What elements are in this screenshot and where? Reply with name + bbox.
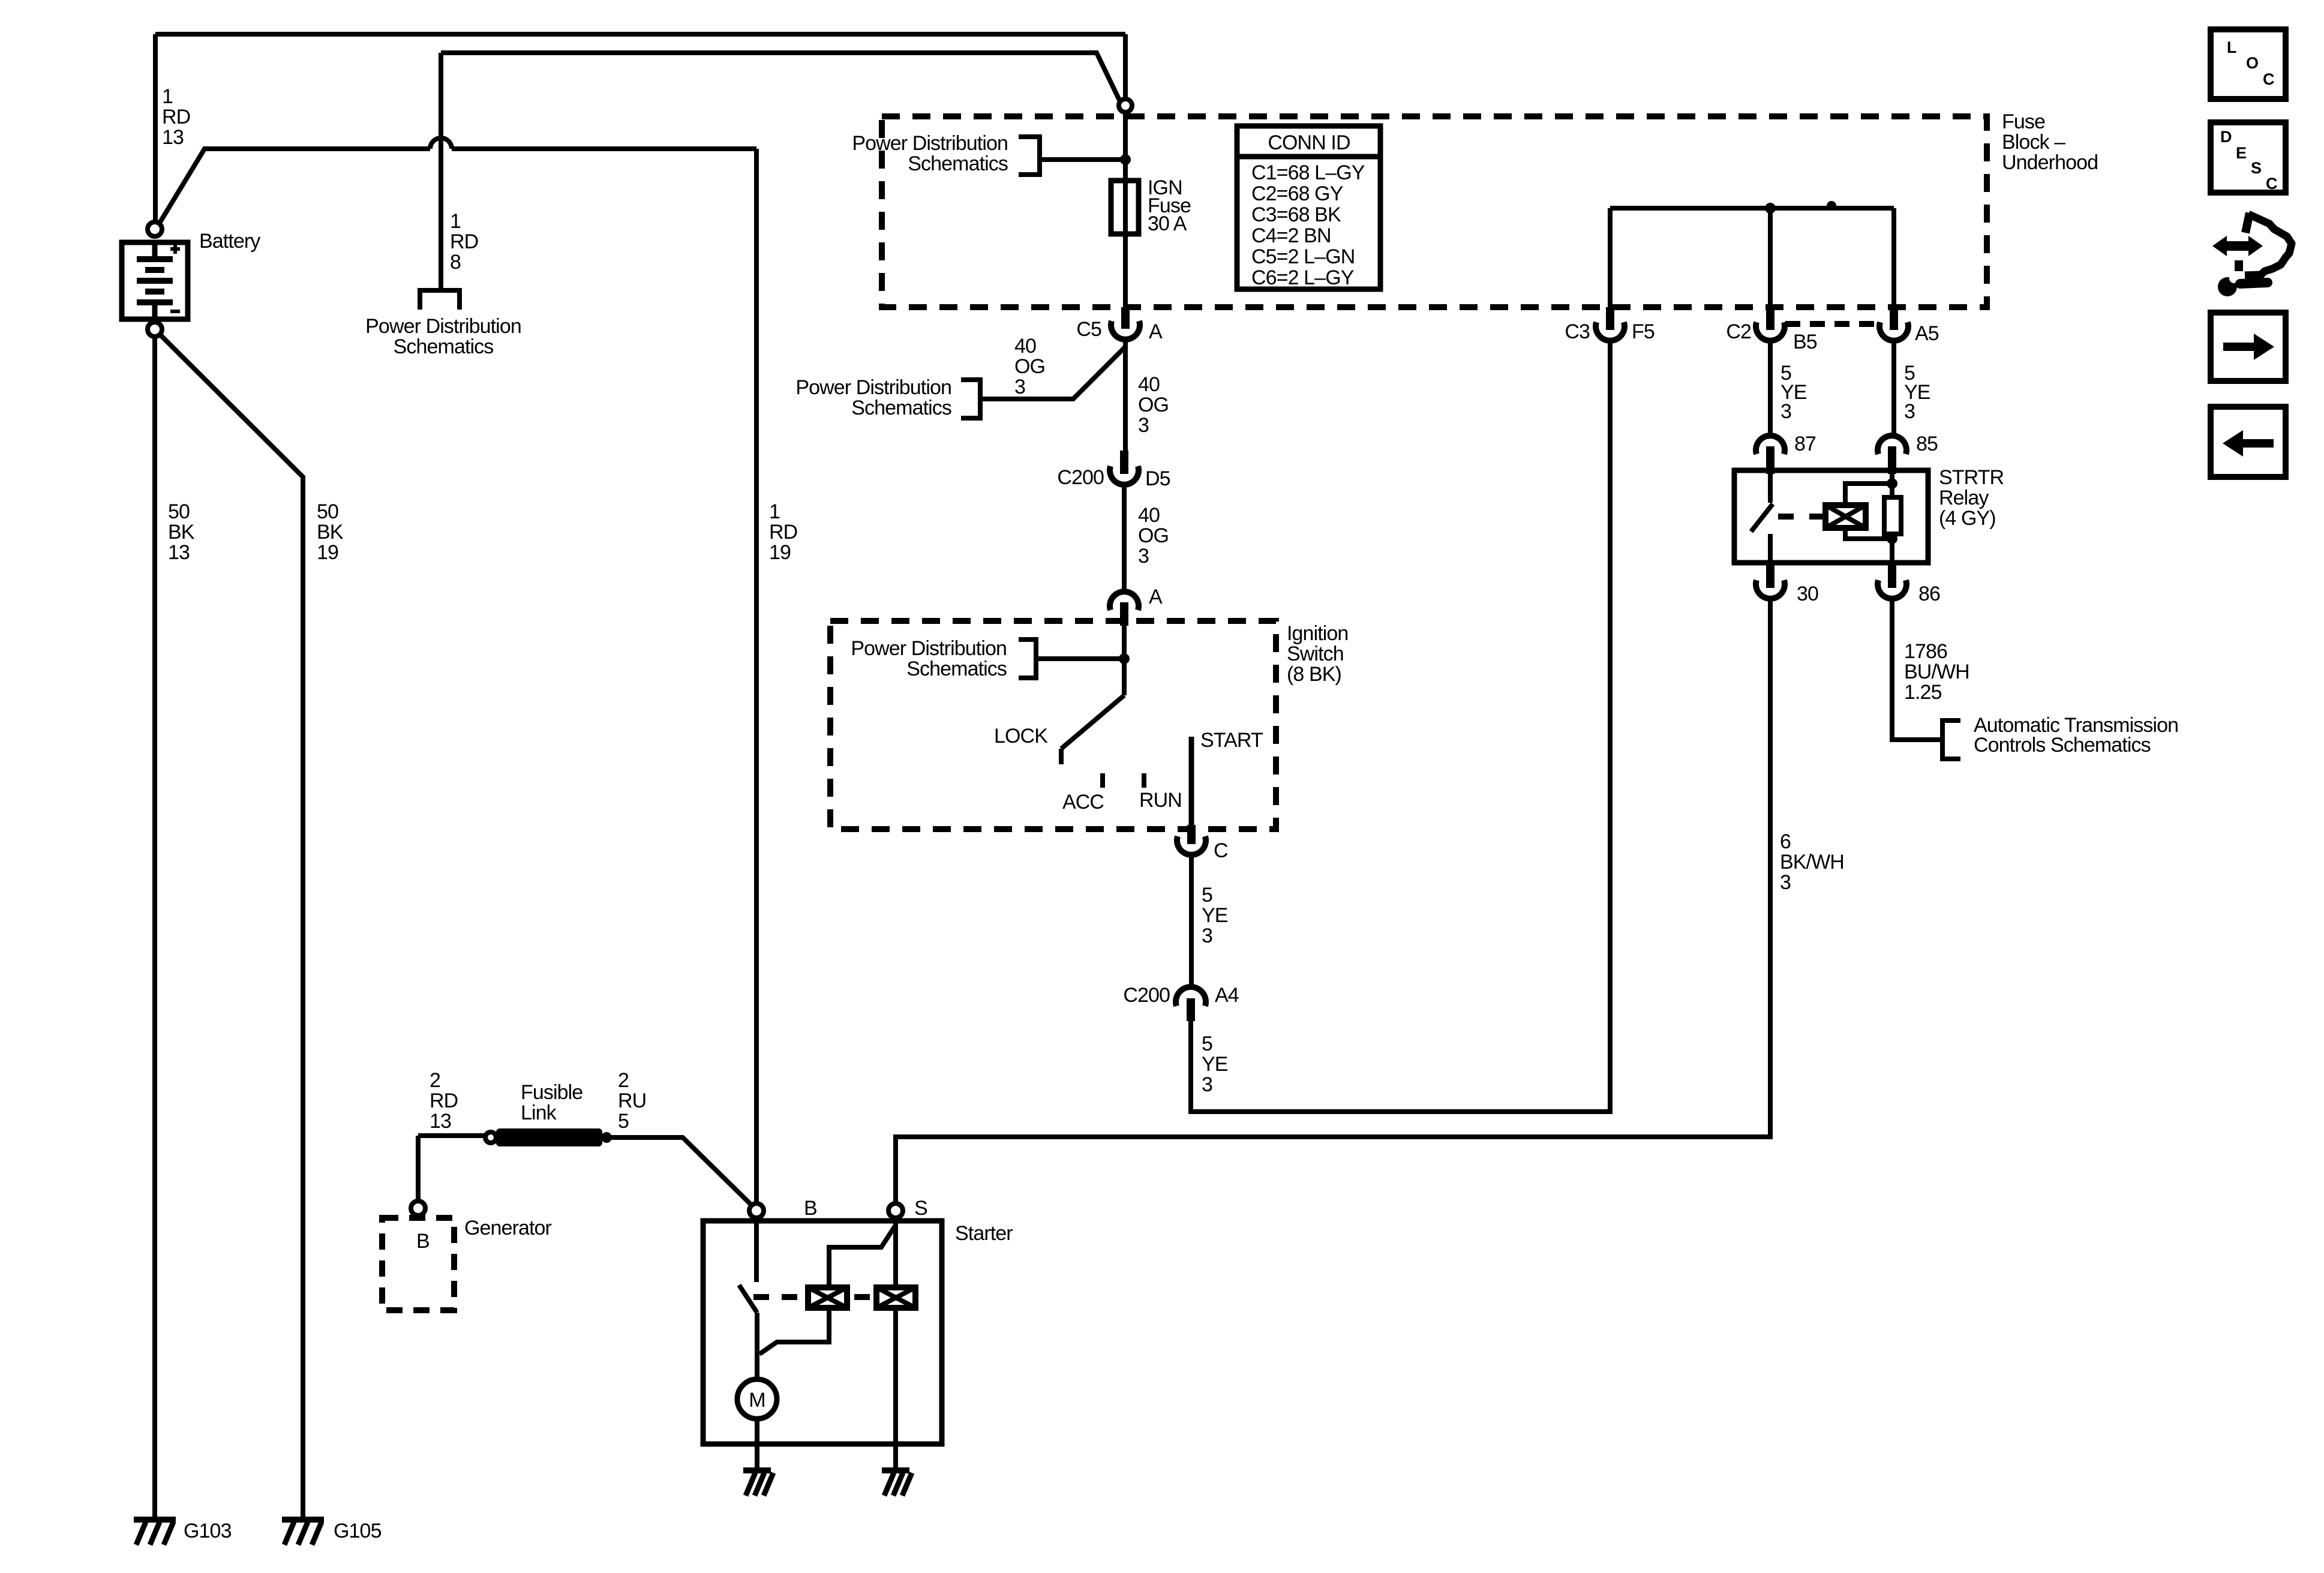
CONN ID table [1237,126,1380,289]
off-page symbol power distribution (1 RD 8) [420,290,460,310]
ground G103 [134,1520,176,1545]
svg-text:13: 13 [162,126,184,149]
bracket power distribution (ignition) [1019,640,1036,678]
svg-text:8: 8 [450,251,461,274]
svg-text:(4 GY): (4 GY) [1939,507,1996,530]
starter hold-in coil [876,1287,915,1308]
node: splice at fuse block top [1119,99,1132,112]
svg-text:30: 30 [1797,583,1818,605]
ground starter motor [743,1470,773,1496]
svg-text:3: 3 [1202,924,1212,947]
svg-text:Ignition: Ignition [1287,622,1348,645]
svg-text:G103: G103 [184,1520,232,1542]
svg-text:C: C [1214,839,1228,862]
relay resistor [1890,474,1894,563]
svg-text:C: C [2263,70,2275,88]
connector C200 pin A4 [1176,987,1206,1006]
connector relay pin 86 [1888,563,1896,588]
fuse IGN 30A [1123,181,1128,307]
svg-text:B: B [804,1197,817,1220]
svg-text:BK: BK [168,521,195,544]
svg-text:B: B [416,1230,430,1253]
svg-text:Block –: Block – [2002,131,2065,154]
ignition RUN contact [1142,773,1146,788]
svg-text:C6=2 L–GY: C6=2 L–GY [1251,266,1354,289]
svg-text:3: 3 [1780,400,1791,423]
connector relay pin 30 [1766,563,1774,588]
wire 5 YE 3 (A5 to relay 85) [1891,341,1896,436]
starter solenoid actuator dashed [753,1294,870,1300]
wire 40 OG 3 (C200 to ignition switch) [1122,485,1127,592]
svg-text:O: O [2246,54,2259,72]
svg-text:Power Distribution: Power Distribution [852,132,1008,155]
connector relay pin 85 [1878,436,1906,454]
svg-text:3: 3 [1780,871,1791,894]
wire battery positive to fuse block (top feed) [155,32,1125,37]
generator B wire [416,1136,421,1201]
ignition switch LOCK contact [1061,695,1124,764]
starter pull-in coil [808,1287,847,1308]
svg-text:Schematics: Schematics [908,152,1008,175]
svg-text:19: 19 [317,541,338,564]
svg-text:START: START [1200,729,1263,752]
svg-text:Fuse: Fuse [2002,110,2045,133]
svg-text:A: A [1149,586,1163,608]
svg-text:Starter: Starter [955,1222,1013,1245]
wire 1786 BU/WH 1.25 (relay 86) [1892,599,1942,740]
connector A (ignition switch input) [1110,592,1139,610]
svg-text:CONN ID: CONN ID [1268,131,1350,154]
svg-text:BK: BK [317,521,344,544]
starter motor ground wire [755,1419,759,1469]
bracket power distribution (fuse block) [1019,137,1040,175]
svg-text:OG: OG [1014,355,1045,378]
icon arrow back [2211,407,2286,477]
svg-text:86: 86 [1918,583,1940,605]
svg-text:40: 40 [1014,335,1036,358]
ignition START contact wire [1189,737,1194,825]
svg-text:A: A [1149,320,1163,343]
battery negative terminal [148,322,162,337]
svg-text:Schematics: Schematics [906,658,1007,680]
svg-text:1: 1 [450,210,461,233]
svg-text:6: 6 [1780,830,1791,853]
wire 40 OG 3 (C5 to C200) [1123,340,1128,451]
svg-text:40: 40 [1138,504,1160,527]
svg-text:C2=68 GY: C2=68 GY [1251,182,1343,205]
svg-text:D5: D5 [1145,467,1170,490]
svg-text:30 A: 30 A [1148,212,1187,235]
battery B+ terminal [148,222,162,236]
svg-text:Underhood: Underhood [2002,151,2098,174]
svg-text:D: D [2220,128,2232,146]
starter box [703,1221,942,1444]
svg-text:3: 3 [1138,545,1149,568]
bracket power distribution (below C5) [961,380,980,418]
svg-text:RD: RD [162,106,190,128]
wire 6 BK/WH 3 (relay 30 to starter S) [896,599,1770,1203]
junction half-dot on bus [1827,201,1836,206]
svg-text:3: 3 [1202,1073,1212,1096]
svg-text:OG: OG [1138,394,1169,416]
wire 1 RD 13 from battery to starter feed [158,149,430,225]
generator feed wire 2 RD 13 [418,1133,486,1138]
fuse block - underhood dashed box [882,116,1987,307]
relay coil wiring [1845,484,1892,539]
svg-text:5: 5 [1202,1032,1212,1055]
icon DESC [2211,122,2286,193]
connector relay pin 87 [1756,436,1785,454]
svg-text:19: 19 [769,541,791,564]
wire tap to power distribution (inside fuse block) [1040,157,1125,162]
svg-text:YE: YE [1202,1053,1228,1076]
svg-text:1.25: 1.25 [1904,681,1942,704]
svg-text:C3: C3 [1565,320,1590,343]
svg-text:Relay: Relay [1939,487,1989,509]
svg-text:RD: RD [450,230,478,253]
fuse block internal bus [1610,206,1894,211]
wire 5 YE 3 (B5 to relay 87) [1768,341,1773,436]
svg-text:STRTR: STRTR [1939,466,2004,489]
connector C200 pin D5 [1120,451,1128,474]
junction dot ignition [1119,653,1130,664]
wire 1 RD 8 vertical [439,53,443,290]
relay switch [1751,474,1773,563]
wire 2 RU 5 to starter B [611,1137,751,1205]
starter motor [737,1379,777,1419]
wire 1 RD 8 feed from top [441,53,1120,101]
generator B terminal [411,1201,425,1215]
ignition ACC contact [1100,773,1105,788]
svg-text:1786: 1786 [1904,640,1947,663]
icon vehicle service (arrow + car + wrench) [2212,213,2292,296]
svg-text:13: 13 [430,1110,451,1133]
svg-text:87: 87 [1794,433,1816,455]
starter S terminal [888,1203,903,1218]
svg-text:50: 50 [317,500,338,523]
relay actuator dashed [1778,514,1825,520]
wire ignition feed [1122,626,1127,695]
connector C2 pin B5 [1766,307,1774,330]
battery [122,242,188,319]
wire 5 YE 3 to fuse block F5 [1191,341,1610,1112]
svg-text:Power Distribution: Power Distribution [851,637,1007,660]
svg-text:M: M [749,1389,765,1412]
svg-text:5: 5 [618,1110,629,1133]
svg-text:C: C [2266,175,2278,193]
svg-text:C200: C200 [1057,466,1104,489]
svg-text:S: S [914,1197,927,1220]
connector C5 pin A [1121,307,1130,329]
icon LOC [2211,29,2286,99]
svg-text:3: 3 [1014,376,1025,398]
svg-text:C4=2 BN: C4=2 BN [1251,224,1331,247]
svg-text:F5: F5 [1632,320,1655,343]
ground starter solenoid [882,1470,912,1496]
wire battery positive drop to battery [153,34,158,221]
svg-text:Controls Schematics: Controls Schematics [1974,734,2151,757]
wire 5 YE 3 (C to C200 A4) [1189,855,1194,987]
svg-text:A5: A5 [1915,322,1939,345]
wire 1 RD 13 horizontal to 1 RD 19 drop [452,146,756,151]
relay coil [1825,505,1866,528]
svg-text:Power Distribution: Power Distribution [795,376,951,399]
svg-text:C5: C5 [1076,318,1101,341]
wire 1 RD 19 vertical to starter B [754,149,759,1202]
svg-text:5: 5 [1202,884,1212,906]
svg-text:A4: A4 [1215,984,1239,1007]
svg-text:Switch: Switch [1287,643,1344,665]
svg-text:Battery: Battery [199,230,260,253]
generator dashed box [382,1218,454,1310]
wire tap to power distribution (ignition) [1036,656,1124,661]
junction dot bus/C2 [1765,203,1776,214]
svg-text:1: 1 [162,85,173,108]
icon arrow forward [2211,313,2286,381]
wire node to IGN fuse [1123,113,1128,181]
svg-text:LOCK: LOCK [994,725,1048,748]
wire 50 BK 13 battery to G103 [152,337,157,1518]
connector C (START output) [1187,825,1196,844]
junction dots relay [1887,478,1897,489]
dashed connector link C2-A5 [1785,321,1878,327]
connector A5 [1890,307,1898,330]
STRTR relay box [1734,470,1928,563]
starter S internal wiring [829,1218,896,1287]
svg-text:Generator: Generator [464,1217,552,1239]
starter B terminal [749,1203,764,1218]
svg-text:YE: YE [1202,904,1228,927]
svg-text:Link: Link [521,1101,557,1124]
svg-text:S: S [2251,159,2262,177]
svg-text:40: 40 [1138,373,1160,396]
svg-text:G105: G105 [334,1520,382,1542]
svg-text:ACC: ACC [1062,791,1104,813]
svg-text:(8 BK): (8 BK) [1287,663,1341,686]
svg-text:3: 3 [1138,414,1149,437]
starter hold-in coil ground path [893,1308,898,1469]
svg-text:RUN: RUN [1139,789,1182,812]
junction dot fuse input [1120,154,1131,165]
ground G105 [282,1520,324,1545]
ignition switch dashed box [830,621,1276,829]
svg-text:2: 2 [618,1069,629,1092]
svg-text:3: 3 [1904,400,1915,423]
svg-text:Schematics: Schematics [394,335,494,358]
svg-text:C1=68 L–GY: C1=68 L–GY [1251,161,1365,184]
svg-text:RD: RD [769,521,797,544]
starter solenoid switch [739,1218,757,1380]
svg-text:E: E [2236,144,2247,162]
svg-text:C2: C2 [1726,320,1751,343]
svg-text:OG: OG [1138,524,1169,547]
svg-text:Fusible: Fusible [521,1081,582,1104]
svg-text:C5=2 L–GN: C5=2 L–GN [1251,245,1355,268]
svg-text:BK/WH: BK/WH [1780,851,1844,873]
svg-text:RU: RU [618,1089,646,1112]
fusible link [485,1128,612,1146]
svg-text:C3=68 BK: C3=68 BK [1251,203,1341,226]
svg-text:85: 85 [1916,433,1938,455]
svg-text:2: 2 [430,1069,440,1092]
svg-text:L: L [2227,38,2237,56]
connector C3 pin F5 [1606,307,1614,330]
svg-text:B5: B5 [1793,331,1817,353]
starter coil return wiring [759,1308,829,1354]
bracket automatic transmission [1942,721,1960,759]
svg-text:Power Distribution: Power Distribution [365,315,521,338]
wire 50 BK 19 battery to G105 [158,333,303,1518]
svg-text:Schematics: Schematics [851,397,951,419]
wire tap to power distribution (below C5) [980,347,1125,399]
wire hop over 1 RD 8 [430,138,452,149]
wire top feed drop to fuse block node [1123,34,1128,100]
svg-text:C200: C200 [1123,984,1170,1007]
svg-text:50: 50 [168,500,190,523]
svg-text:BU/WH: BU/WH [1904,661,1969,683]
svg-text:1: 1 [769,500,780,523]
svg-text:RD: RD [430,1089,458,1112]
svg-text:13: 13 [168,541,190,564]
